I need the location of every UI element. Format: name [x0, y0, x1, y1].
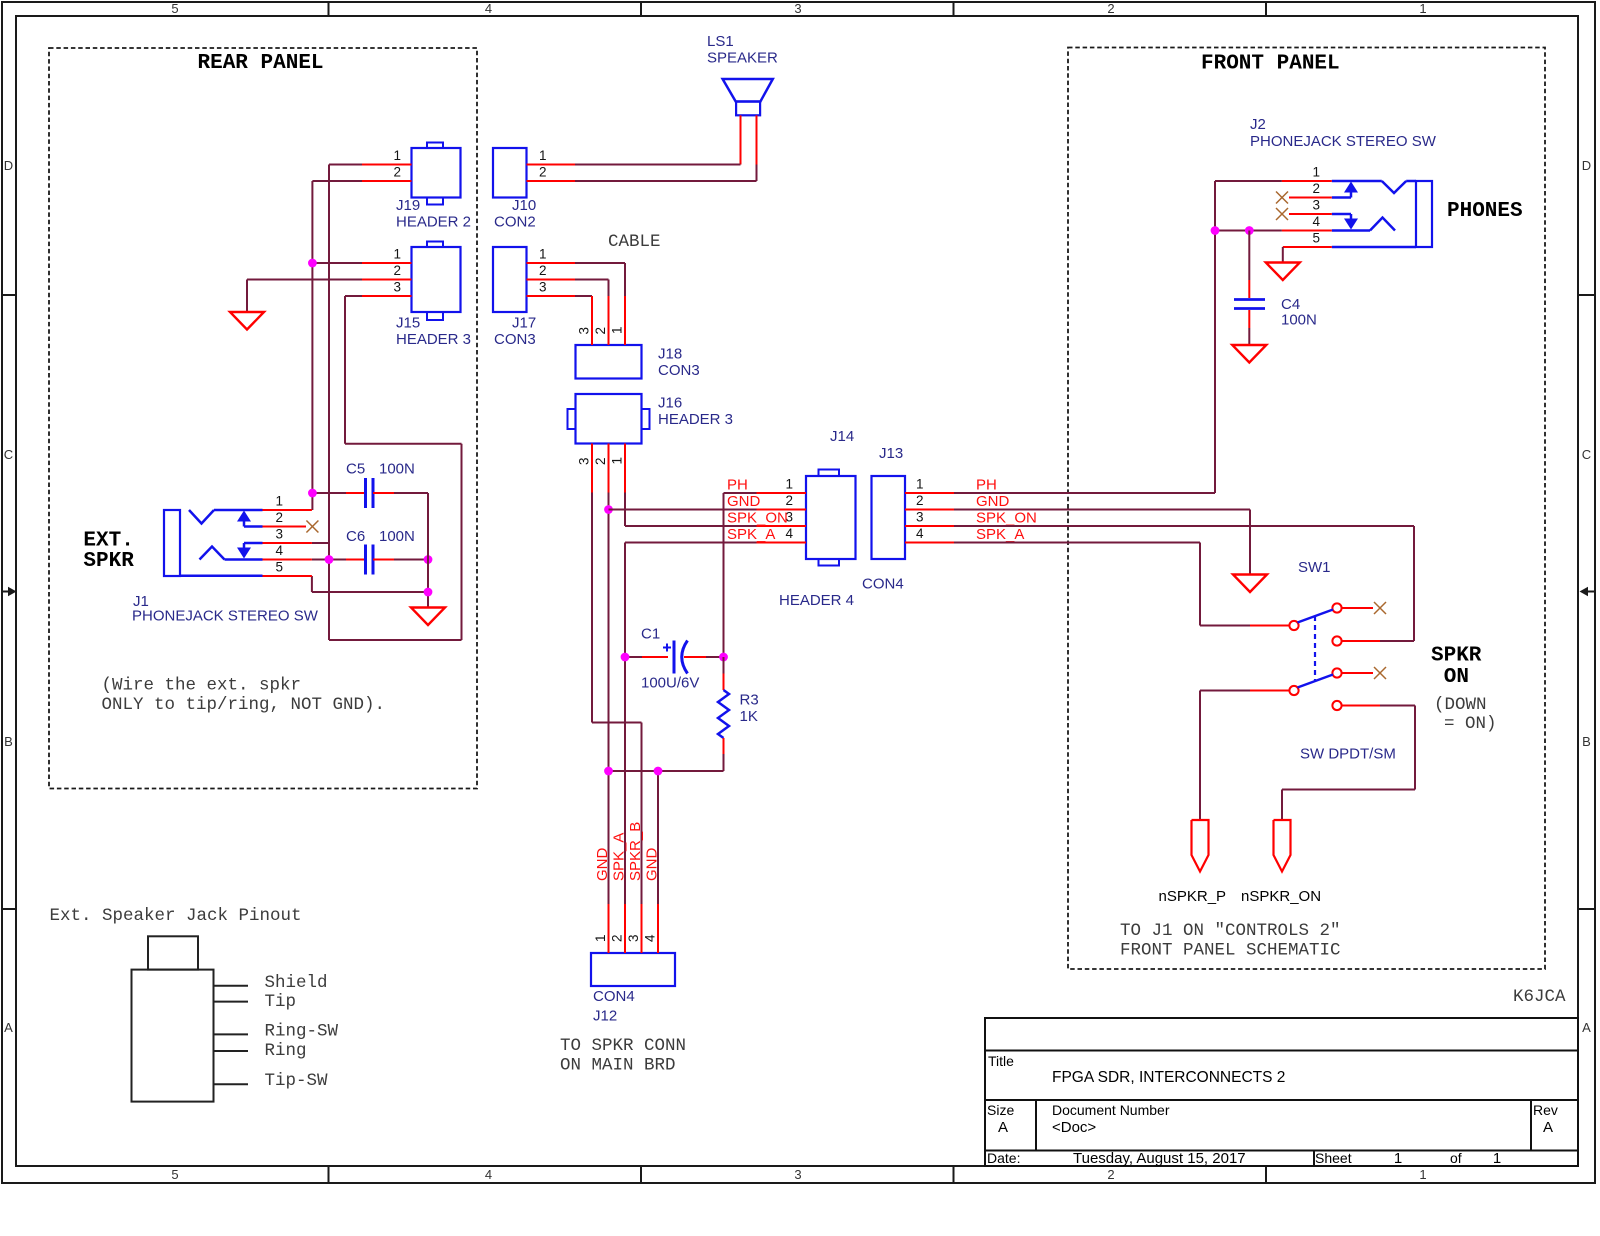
label CABLE: [608, 232, 661, 252]
svg-text:3: 3: [393, 280, 401, 295]
svg-text:GND: GND: [976, 493, 1010, 510]
svg-text:2: 2: [539, 165, 547, 180]
port nSPKR_ON: [1241, 820, 1321, 905]
wire J17 pin2 to J18 pin2: [575, 280, 609, 297]
speaker LS1: [707, 33, 778, 115]
svg-text:100U/6V: 100U/6V: [641, 675, 699, 692]
svg-text:nSPKR_P: nSPKR_P: [1159, 888, 1227, 905]
J13 pin stubs: [905, 493, 954, 543]
wire SW1 pole2 throw to port: [1282, 706, 1415, 821]
junction C6 right: [424, 555, 433, 564]
junction C5 left: [308, 489, 317, 498]
svg-text:5: 5: [171, 1167, 178, 1182]
J17 pin stubs: [527, 263, 576, 296]
connector J15 HEADER 3: [393, 242, 471, 349]
ground below C4: [1232, 345, 1266, 363]
net label SPK_A (J12 pin2): [611, 833, 628, 881]
port nSPKR_P: [1159, 820, 1227, 905]
svg-text:3: 3: [794, 1167, 801, 1182]
junction J15 pin1: [308, 259, 317, 268]
wire bottom rail to GND columns: [609, 771, 724, 904]
connector J17 CON3: [493, 247, 547, 349]
svg-text:GND: GND: [727, 493, 761, 510]
label EXT SPKR: [83, 530, 134, 574]
svg-text:TO J1 ON "CONTROLS 2": TO J1 ON "CONTROLS 2": [1120, 921, 1341, 941]
svg-text:2: 2: [785, 493, 793, 508]
svg-text:2: 2: [393, 263, 401, 278]
svg-text:Shield: Shield: [265, 973, 328, 993]
connector J14 HEADER 4: [779, 428, 856, 609]
wire J10 pin1 to speaker: [575, 164, 741, 166]
svg-text:REAR PANEL: REAR PANEL: [198, 52, 324, 75]
wire SPK_A net to SW1 common: [954, 543, 1250, 626]
svg-text:3: 3: [539, 280, 547, 295]
J1 pin stubs: [263, 510, 312, 576]
svg-text:2: 2: [593, 327, 608, 335]
svg-text:2: 2: [393, 165, 401, 180]
no-connect J2 pin3: [1276, 208, 1288, 220]
svg-text:1: 1: [539, 247, 547, 262]
svg-text:5: 5: [275, 560, 283, 575]
svg-text:HEADER 3: HEADER 3: [658, 411, 733, 428]
junction ground rail: [424, 588, 433, 597]
svg-text:R3: R3: [740, 692, 759, 709]
svg-text:PHONEJACK STEREO SW: PHONEJACK STEREO SW: [132, 608, 319, 625]
svg-text:Title: Title: [988, 1053, 1014, 1069]
svg-text:D: D: [1582, 158, 1591, 173]
svg-text:1: 1: [610, 326, 625, 334]
svg-text:SPKR: SPKR: [1431, 645, 1482, 668]
junction rail second GND column: [654, 767, 663, 776]
svg-text:3: 3: [1312, 198, 1320, 213]
svg-text:1: 1: [275, 494, 283, 509]
svg-text:Ring-SW: Ring-SW: [265, 1022, 339, 1042]
note to J1 controls2: [1120, 921, 1341, 961]
svg-text:4: 4: [643, 934, 658, 942]
svg-text:(Wire the ext. spkr: (Wire the ext. spkr: [102, 676, 302, 696]
svg-text:Sheet: Sheet: [1315, 1150, 1352, 1166]
J2 pin stubs: [1282, 181, 1332, 247]
LS1 pin stubs: [741, 115, 757, 164]
svg-text:CON3: CON3: [494, 331, 536, 348]
svg-text:ONLY to tip/ring, NOT GND).: ONLY to tip/ring, NOT GND).: [102, 695, 386, 715]
svg-text:3: 3: [275, 527, 283, 542]
svg-text:HEADER 3: HEADER 3: [396, 331, 471, 348]
svg-text:4: 4: [485, 1167, 492, 1182]
wire GND net to ground: [954, 510, 1250, 575]
no-connect SW1 throw1: [1374, 602, 1386, 614]
svg-text:of: of: [1450, 1150, 1462, 1166]
note wire ext spkr: [102, 676, 386, 716]
J15 pin stubs: [362, 263, 412, 296]
svg-text:SPK_A: SPK_A: [727, 526, 775, 543]
svg-text:<Doc>: <Doc>: [1052, 1119, 1096, 1136]
svg-text:2: 2: [275, 510, 283, 525]
no-connect SW1 throw3: [1374, 667, 1386, 679]
svg-text:PH: PH: [727, 477, 748, 494]
svg-text:2: 2: [610, 934, 625, 942]
junction C1 left: [621, 653, 630, 662]
svg-text:A: A: [1582, 1020, 1591, 1035]
svg-text:5: 5: [1312, 231, 1320, 246]
svg-text:FRONT PANEL: FRONT PANEL: [1201, 53, 1340, 76]
svg-text:A: A: [1543, 1119, 1553, 1136]
svg-text:SPK_A: SPK_A: [976, 526, 1024, 543]
phonejack J1 PHONEJACK STEREO SW (EXT SPKR): [132, 494, 319, 625]
svg-text:J17: J17: [512, 315, 536, 332]
svg-text:PHONES: PHONES: [1447, 200, 1523, 223]
svg-text:J18: J18: [658, 346, 682, 363]
svg-text:LS1: LS1: [707, 33, 734, 50]
svg-text:FRONT PANEL SCHEMATIC: FRONT PANEL SCHEMATIC: [1120, 941, 1341, 961]
svg-text:4: 4: [275, 543, 283, 558]
svg-text:SPKR_B: SPKR_B: [627, 822, 644, 881]
svg-text:1: 1: [393, 148, 401, 163]
J19 pin stubs: [362, 165, 412, 182]
svg-text:C1: C1: [641, 626, 660, 643]
svg-text:A: A: [998, 1119, 1008, 1136]
svg-text:SPEAKER: SPEAKER: [707, 50, 778, 67]
svg-text:1: 1: [916, 477, 924, 492]
J18 pin stubs: [592, 296, 625, 345]
label PHONES: [1447, 200, 1523, 223]
wire J1 pin3 to bus: [312, 542, 329, 544]
svg-text:CABLE: CABLE: [608, 232, 661, 252]
svg-text:C6: C6: [346, 528, 365, 545]
svg-text:100N: 100N: [379, 461, 415, 478]
svg-text:nSPKR_ON: nSPKR_ON: [1241, 888, 1321, 905]
svg-text:ON MAIN BRD: ON MAIN BRD: [560, 1056, 676, 1076]
svg-text:1: 1: [1493, 1150, 1501, 1167]
ground J2 pin5: [1266, 263, 1300, 281]
wire SPK_ON net to SW1: [954, 526, 1414, 641]
svg-text:3: 3: [794, 1, 801, 16]
svg-text:SPK_A: SPK_A: [611, 833, 628, 881]
wire PH column C1 to J14 pin1: [724, 493, 757, 657]
J10 pin stubs: [527, 165, 576, 182]
wire C5 right down to ground rail: [312, 493, 428, 608]
wire J17 pin1 to J18 pin1: [575, 263, 625, 296]
svg-text:PHONEJACK STEREO SW: PHONEJACK STEREO SW: [1250, 133, 1437, 150]
svg-text:GND: GND: [594, 848, 611, 882]
note down=on: [1434, 695, 1497, 734]
svg-text:1: 1: [785, 477, 793, 492]
connector J18 CON3: [576, 326, 700, 379]
svg-text:4: 4: [485, 1, 492, 16]
net labels right of J13: [976, 477, 1037, 544]
svg-text:Tip: Tip: [265, 992, 297, 1012]
wire PH net J13 to J2: [954, 181, 1282, 493]
label SPKR ON: [1431, 645, 1482, 690]
capacitor C1 100U/6V: [625, 626, 724, 692]
svg-text:SPK_ON: SPK_ON: [976, 510, 1037, 527]
ground GND net: [1233, 575, 1267, 593]
svg-text:Tuesday, August 15, 2017: Tuesday, August 15, 2017: [1073, 1150, 1246, 1167]
no-connect J1 pin2: [306, 521, 318, 533]
svg-text:2: 2: [593, 457, 608, 465]
svg-text:3: 3: [626, 934, 641, 942]
svg-text:3: 3: [577, 327, 592, 335]
svg-text:J14: J14: [830, 428, 854, 445]
connector J13 CON4: [862, 445, 924, 593]
svg-text:3: 3: [916, 510, 924, 525]
svg-text:TO SPKR CONN: TO SPKR CONN: [560, 1036, 686, 1056]
wire J10 pin2 to speaker: [575, 165, 757, 182]
svg-text:4: 4: [916, 526, 924, 541]
wire J16 pin3 to SPKR_B column: [592, 493, 642, 905]
svg-text:1: 1: [1419, 1, 1426, 16]
svg-text:SPK_ON: SPK_ON: [727, 510, 788, 527]
no-connect J2 pin2: [1276, 192, 1288, 204]
ground at J15 pin2: [230, 312, 264, 330]
junction C4 tap: [1245, 226, 1254, 235]
svg-text:ON: ON: [1444, 666, 1469, 689]
connector J12 CON4: [591, 934, 675, 1025]
ext speaker jack pinout diagram: [50, 906, 339, 1102]
svg-text:1K: 1K: [740, 708, 758, 725]
capacitor C4 100N: [1234, 231, 1317, 346]
svg-text:CON3: CON3: [658, 362, 700, 379]
junction GND at J14 row: [604, 505, 613, 514]
svg-text:Date:: Date:: [987, 1150, 1020, 1166]
connector J16 HEADER 3: [568, 394, 734, 465]
wire J15 pin2 to ground: [247, 280, 362, 313]
front panel boundary box: [1068, 48, 1545, 970]
wire J17 pin3 to J18 pin3: [575, 295, 592, 297]
rear panel boundary box: [49, 48, 477, 789]
svg-text:1: 1: [1419, 1167, 1426, 1182]
net labels left of J14: [727, 477, 788, 544]
svg-text:Ext. Speaker Jack Pinout: Ext. Speaker Jack Pinout: [50, 906, 302, 926]
svg-text:1: 1: [1312, 165, 1320, 180]
svg-text:D: D: [4, 158, 13, 173]
wire J19 pin1 to J15 pin3 loop bus (x=329): [329, 165, 462, 641]
svg-text:1: 1: [1394, 1150, 1402, 1167]
ground below C6: [411, 608, 445, 626]
svg-text:B: B: [4, 734, 13, 749]
resistor R3 1K: [718, 657, 759, 771]
net label SPKR_B (J12 pin3): [627, 822, 644, 881]
phonejack J2 PHONEJACK STEREO SW (PHONES): [1250, 116, 1437, 247]
svg-text:100N: 100N: [379, 528, 415, 545]
svg-text:2: 2: [1107, 1, 1114, 16]
svg-text:C5: C5: [346, 461, 365, 478]
J16 pin stubs: [592, 444, 625, 493]
svg-text:C4: C4: [1281, 296, 1300, 313]
svg-text:4: 4: [1312, 214, 1320, 229]
svg-text:CON4: CON4: [862, 576, 904, 593]
svg-text:A: A: [4, 1020, 13, 1035]
junction C1 right: [719, 653, 728, 662]
svg-text:J10: J10: [512, 197, 536, 214]
junction PH column pin4: [1211, 226, 1220, 235]
svg-text:1: 1: [610, 457, 625, 465]
svg-text:1: 1: [593, 934, 608, 942]
svg-text:J16: J16: [658, 395, 682, 412]
svg-text:2: 2: [916, 493, 924, 508]
svg-text:HEADER 2: HEADER 2: [396, 214, 471, 231]
svg-text:SPKR: SPKR: [83, 550, 134, 573]
svg-text:SW DPDT/SM: SW DPDT/SM: [1300, 746, 1396, 763]
svg-text:SW1: SW1: [1298, 559, 1331, 576]
wire SPK_A row down to C1 and J12 pin2: [625, 543, 757, 905]
svg-text:5: 5: [171, 1, 178, 16]
svg-text:CON4: CON4: [593, 988, 635, 1005]
svg-text:PH: PH: [976, 477, 997, 494]
J14 pin stubs: [757, 493, 807, 543]
J12 pin stubs: [609, 904, 659, 953]
svg-text:J2: J2: [1250, 116, 1266, 133]
wire J19 pin2 bus (x=312.4) down to J1 tip: [312, 181, 362, 510]
connector J19 HEADER 2: [393, 143, 471, 231]
svg-text:2: 2: [1312, 181, 1320, 196]
junction rail GND column: [604, 767, 613, 776]
svg-text:J12: J12: [593, 1008, 617, 1025]
wire J2 pin4 branch: [1215, 230, 1282, 232]
svg-text:Rev: Rev: [1533, 1102, 1558, 1118]
capacitor C6 100N: [312, 528, 428, 575]
svg-text:B: B: [1582, 734, 1591, 749]
svg-text:= ON): = ON): [1444, 714, 1497, 734]
svg-text:J19: J19: [396, 197, 420, 214]
net label GND (J12 pin1): [594, 848, 611, 882]
note to spkr conn: [560, 1036, 686, 1076]
svg-text:K6JCA: K6JCA: [1513, 987, 1566, 1007]
svg-text:FPGA SDR, INTERCONNECTS 2: FPGA SDR, INTERCONNECTS 2: [1052, 1069, 1285, 1086]
svg-text:Tip-SW: Tip-SW: [265, 1071, 329, 1091]
wire GND column J16 pin2 to J12 pin1: [608, 493, 610, 905]
svg-text:C: C: [1582, 447, 1591, 462]
switch SW1 SW DPDT/SM: [1250, 559, 1396, 763]
net label GND (J12 pin4): [644, 848, 661, 882]
signature K6JCA: [1513, 987, 1566, 1007]
wire J16 pin1 to SPK_ON row: [625, 493, 757, 527]
svg-text:2: 2: [1107, 1167, 1114, 1182]
svg-text:J15: J15: [396, 315, 420, 332]
svg-text:HEADER 4: HEADER 4: [779, 592, 854, 609]
svg-text:Document Number: Document Number: [1052, 1102, 1170, 1118]
svg-text:J13: J13: [879, 445, 903, 462]
capacitor C5 100N: [312, 461, 428, 509]
connector J10 CON2: [493, 148, 547, 231]
svg-text:Size: Size: [987, 1102, 1014, 1118]
svg-text:1: 1: [539, 148, 547, 163]
wire J2 pin5 to ground: [1282, 247, 1284, 263]
svg-text:(DOWN: (DOWN: [1434, 695, 1487, 715]
svg-text:C: C: [4, 447, 13, 462]
wire GND row to J14 pin2: [609, 509, 757, 511]
svg-text:100N: 100N: [1281, 312, 1317, 329]
junction C6 left: [325, 555, 334, 564]
svg-text:CON2: CON2: [494, 214, 536, 231]
wire SW1 pole2 common to port: [1200, 691, 1250, 821]
svg-text:1: 1: [393, 247, 401, 262]
svg-text:2: 2: [539, 263, 547, 278]
svg-text:4: 4: [785, 526, 793, 541]
svg-text:3: 3: [577, 457, 592, 465]
svg-text:GND: GND: [644, 848, 661, 882]
svg-text:Ring: Ring: [265, 1041, 307, 1061]
